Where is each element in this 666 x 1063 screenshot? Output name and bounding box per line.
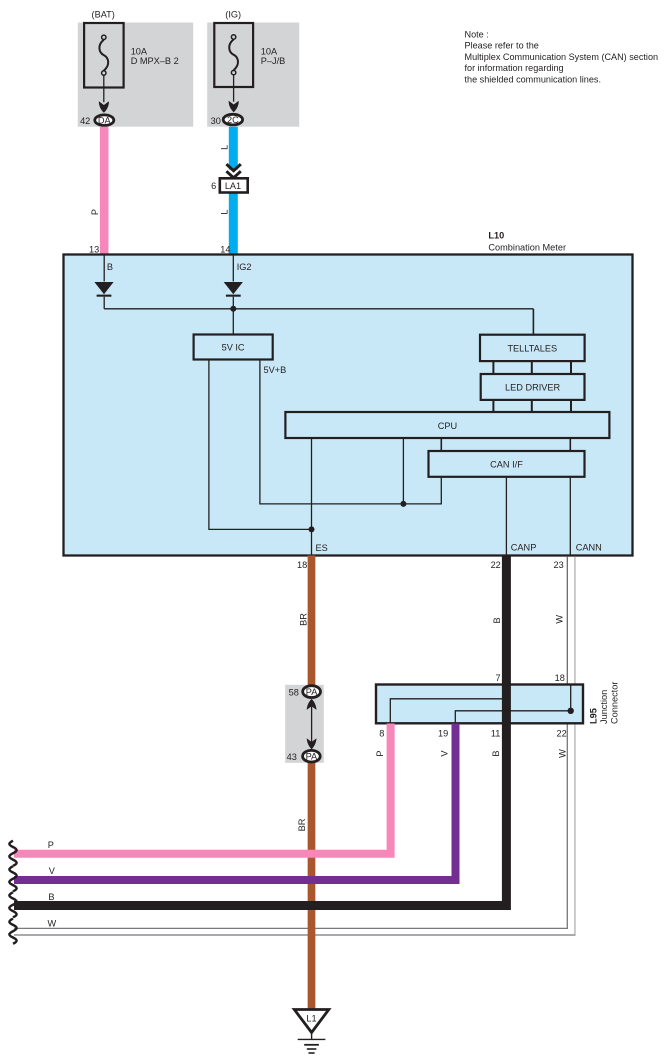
connector 42 DA — [80, 115, 114, 126]
junction dot ES node — [309, 526, 315, 532]
svg-text:Please refer to the: Please refer to the — [465, 41, 539, 51]
wire CAN I/F to CANN pin — [569, 477, 571, 556]
svg-text:CANN: CANN — [576, 543, 602, 553]
arrow into connector 2C — [229, 101, 239, 113]
svg-text:BR: BR — [297, 818, 307, 831]
internal supply bus — [104, 308, 533, 310]
svg-text:CANP: CANP — [511, 543, 537, 553]
svg-text:8: 8 — [379, 728, 384, 738]
svg-text:CPU: CPU — [438, 421, 457, 431]
svg-text:PA: PA — [306, 687, 318, 697]
fuse 10A P-J/B — [214, 23, 253, 87]
svg-text:PA: PA — [306, 752, 318, 762]
label L95 Junction Connector — [588, 682, 619, 724]
internal wire B to P — [390, 699, 506, 723]
fuse value label 10A P-J/B — [261, 47, 286, 66]
svg-text:(BAT): (BAT) — [92, 10, 115, 20]
junction connector L95 box — [376, 685, 583, 724]
note text — [465, 30, 659, 85]
splice connector 58 PA / 43 PA shading — [285, 685, 324, 763]
continuation squiggle W — [9, 919, 16, 944]
svg-text:5V+B: 5V+B — [264, 365, 287, 375]
wire W white shielded lower (outer line, horizontal) — [14, 934, 576, 936]
fuse block shading (IG) — [207, 23, 299, 127]
svg-text:P: P — [375, 750, 385, 756]
svg-text:Multiplex Communication System: Multiplex Communication System (CAN) sec… — [465, 52, 659, 62]
fuse 10A D MPX-B 2 — [84, 23, 124, 88]
wire fuse BAT to connector — [103, 75, 105, 102]
svg-text:11: 11 — [491, 728, 501, 738]
svg-text:V: V — [49, 866, 56, 876]
wire bus to TELLTALES — [532, 309, 534, 335]
fuse block shading (BAT) — [78, 23, 193, 127]
wire L blue vertical (below shield mark) — [229, 193, 238, 255]
svg-text:L10: L10 — [488, 230, 504, 240]
junction dot B — [503, 696, 509, 702]
svg-text:B: B — [492, 617, 502, 623]
svg-text:LA1: LA1 — [225, 181, 241, 191]
svg-text:W: W — [558, 749, 568, 758]
svg-text:L95: L95 — [588, 708, 598, 724]
svg-text:13: 13 — [89, 244, 99, 254]
svg-text:W: W — [48, 918, 57, 928]
combination meter box L10 — [64, 255, 633, 556]
svg-text:TELLTALES: TELLTALES — [507, 344, 557, 354]
label L10 Combination Meter — [488, 230, 566, 252]
block CAN I/F — [429, 451, 585, 477]
arrow link between PA connectors — [307, 699, 317, 750]
wire CPU to 5V+B rail — [402, 438, 404, 504]
svg-text:L1: L1 — [306, 1014, 316, 1024]
svg-text:Connector: Connector — [609, 682, 619, 724]
junction dot diode D2 bus — [230, 306, 236, 312]
junction dot 5V+B rail — [400, 501, 406, 507]
wire B black from pin 22 through junction connector — [14, 556, 506, 906]
junction box 6 LA1 — [211, 178, 248, 192]
svg-text:P–J/B: P–J/B — [261, 56, 286, 66]
svg-text:2C: 2C — [227, 115, 239, 125]
diode D2 — [224, 282, 243, 297]
svg-text:19: 19 — [438, 728, 448, 738]
svg-text:B: B — [107, 262, 113, 272]
svg-text:5V IC: 5V IC — [222, 342, 245, 352]
connector 43 PA — [287, 750, 321, 762]
block LED DRIVER — [481, 374, 585, 400]
connector 30 2C — [211, 114, 243, 126]
fuse value label 10A D MPX-B 2 — [131, 47, 179, 66]
block TELLTALES — [480, 335, 585, 361]
svg-text:58: 58 — [289, 688, 299, 698]
wire W white shielded from pin 23 (upper, outer line) — [574, 557, 576, 685]
wire diode D2 to 5V IC — [232, 297, 234, 335]
wire fuse IG to connector — [233, 75, 235, 102]
svg-text:BR: BR — [299, 613, 309, 626]
wire W white shielded from pin 23 (upper, inner line) — [566, 557, 568, 685]
wires TELLTALES to LED DRIVER — [493, 361, 571, 374]
svg-text:ES: ES — [316, 543, 328, 553]
svg-text:7: 7 — [495, 673, 500, 683]
svg-text:(IG): (IG) — [225, 10, 241, 20]
continuation squiggle B — [9, 892, 16, 917]
svg-text:P: P — [48, 840, 54, 850]
wire V violet from junction pin 19 — [14, 724, 456, 881]
svg-text:V: V — [439, 750, 449, 757]
svg-text:14: 14 — [220, 244, 230, 254]
block 5V IC — [194, 335, 273, 360]
svg-text:Junction: Junction — [599, 690, 609, 724]
svg-text:B: B — [48, 892, 54, 902]
wire L blue vertical from 2C to pin 14 — [229, 127, 238, 170]
wire 5V IC left output to ES node — [209, 360, 312, 530]
wire W white shielded lower (outer line, vertical) — [574, 724, 576, 934]
wire B black through junction connector — [502, 684, 511, 724]
svg-text:18: 18 — [555, 673, 565, 683]
svg-text:P: P — [90, 209, 100, 215]
ground symbol L1 — [294, 1010, 329, 1054]
wire W white shielded lower (inner line) — [14, 724, 567, 928]
svg-text:Combination Meter: Combination Meter — [488, 243, 566, 253]
svg-text:43: 43 — [287, 752, 297, 762]
wires CPU to CAN I/F — [441, 438, 570, 451]
svg-text:22: 22 — [556, 728, 566, 738]
svg-text:LED DRIVER: LED DRIVER — [505, 383, 561, 393]
svg-text:B: B — [491, 750, 501, 756]
wire P pink from junction pin 8 — [14, 724, 391, 854]
connector 58 PA — [289, 686, 321, 698]
continuation squiggle V — [9, 866, 16, 891]
wire CAN I/F to CANP pin — [505, 477, 507, 556]
svg-text:the shielded communication lin: the shielded communication lines. — [465, 74, 601, 84]
svg-text:L: L — [220, 209, 230, 214]
svg-text:18: 18 — [297, 560, 307, 570]
junction dot W — [568, 708, 574, 714]
svg-text:23: 23 — [553, 560, 563, 570]
wire P pink vertical from DA to pin 13 — [100, 127, 109, 255]
wire into diode D2 — [232, 256, 234, 282]
svg-text:6: 6 — [211, 181, 216, 191]
wire 5V IC right output 5V+B — [260, 360, 441, 504]
svg-text:L: L — [220, 145, 230, 150]
svg-text:CAN I/F: CAN I/F — [490, 460, 523, 470]
svg-text:for information regarding: for information regarding — [465, 63, 564, 73]
svg-text:Note :: Note : — [465, 30, 489, 40]
shield chevrons on L wire — [226, 164, 240, 178]
wire diode D1 to bus — [103, 297, 105, 309]
arrow into connector DA — [99, 101, 109, 113]
svg-text:D MPX–B 2: D MPX–B 2 — [131, 56, 179, 66]
svg-text:DA: DA — [98, 116, 112, 126]
svg-text:W: W — [555, 615, 565, 624]
wire into diode D1 — [103, 256, 105, 282]
svg-text:22: 22 — [491, 560, 501, 570]
internal wire W to V — [455, 685, 570, 723]
wire CPU to ES pin — [311, 438, 313, 556]
svg-text:42: 42 — [80, 116, 90, 126]
wires LED DRIVER to CPU — [493, 400, 571, 412]
continuation squiggle P — [9, 841, 16, 866]
svg-text:30: 30 — [211, 116, 221, 126]
svg-text:IG2: IG2 — [237, 262, 252, 272]
block CPU — [285, 412, 609, 438]
wire BR brown from pin 18 to ground — [308, 556, 316, 1009]
diode D1 — [94, 282, 113, 297]
